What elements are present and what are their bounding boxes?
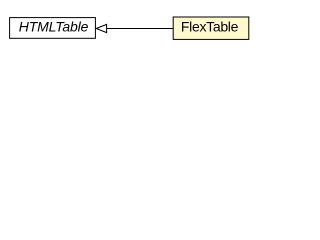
inheritance arrowhead (hollow triangle) [96,24,106,32]
svg-text:FlexTable: FlexTable [181,18,239,34]
class box HTMLTable [10,18,96,39]
class box FlexTable (highlighted) [173,17,249,39]
background [0,0,260,59]
wire (generalization line) [107,28,173,30]
svg-text:HTMLTable: HTMLTable [19,19,89,35]
